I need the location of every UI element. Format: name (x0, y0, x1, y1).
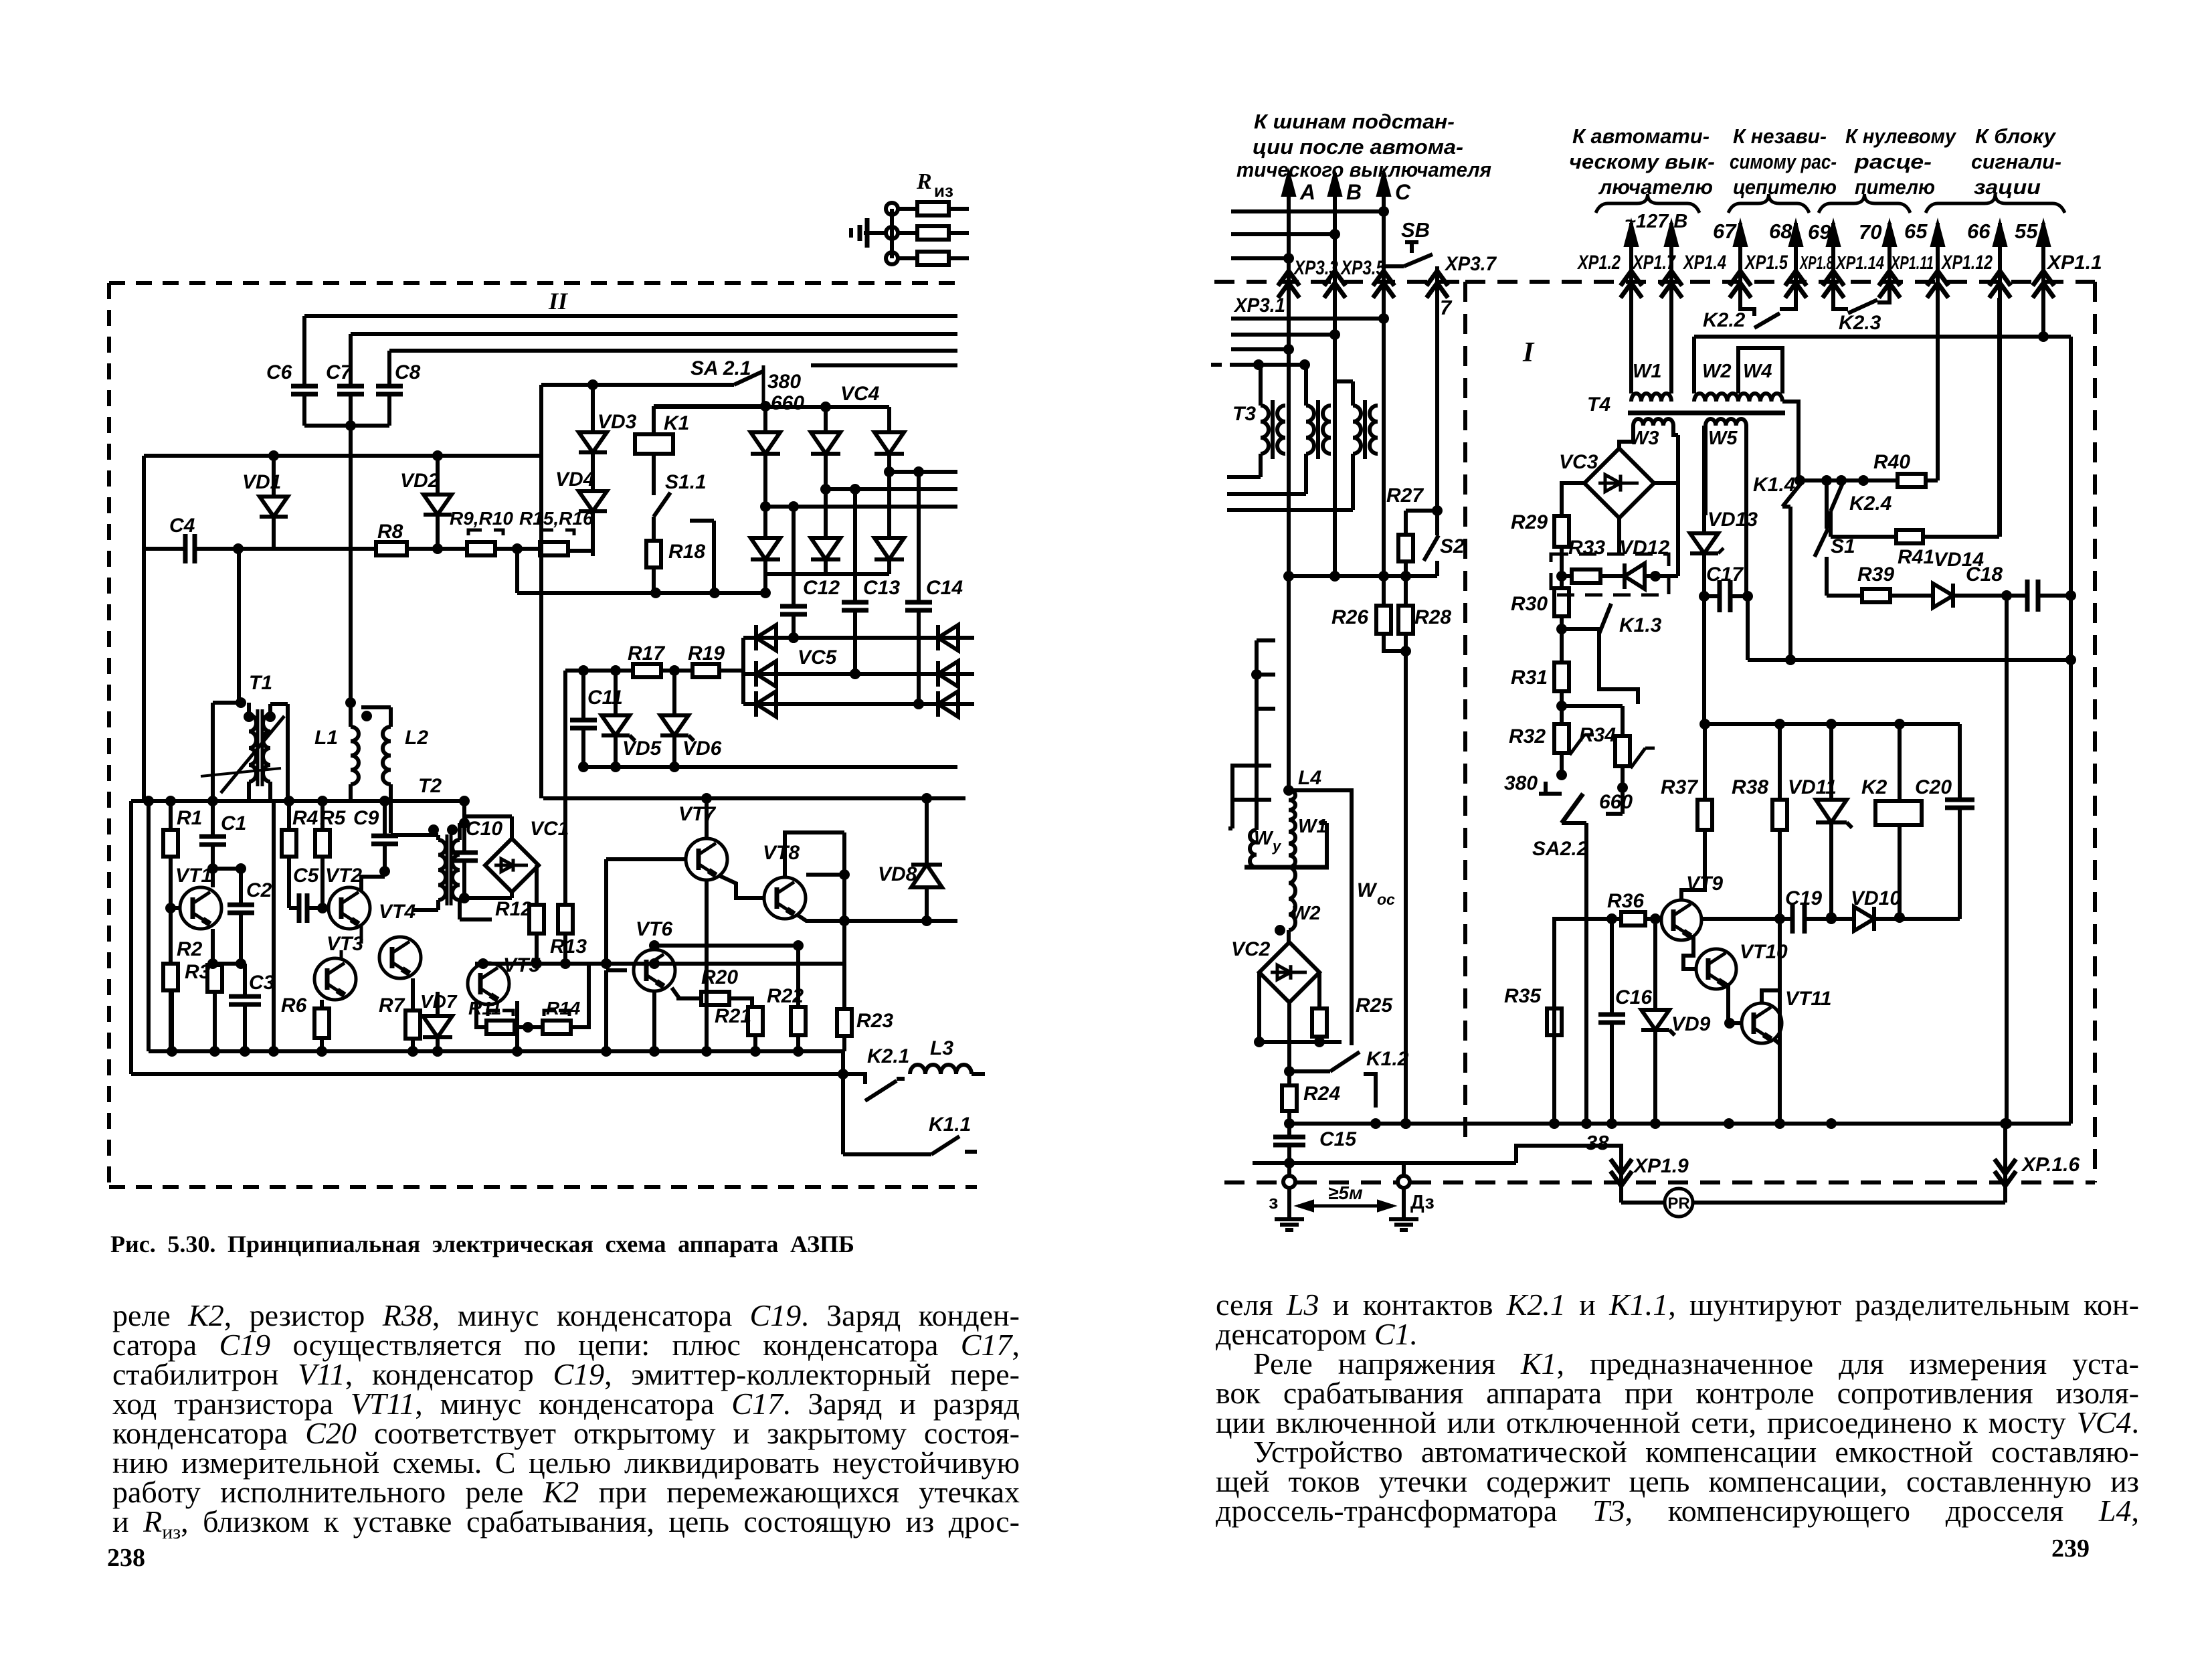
connector XP3.7 (1382, 260, 1386, 271)
svg-text:R32: R32 (1509, 725, 1546, 747)
svg-text:R14: R14 (546, 998, 581, 1019)
transistor VT4 (379, 937, 421, 978)
svg-text:R33: R33 (1568, 537, 1605, 559)
svg-text:ции после автома-: ции после автома- (1253, 135, 1463, 159)
diode VD10 (1831, 917, 1854, 921)
svg-text:сигнали-: сигнали- (1971, 150, 2061, 173)
resistors R9,R10 (467, 542, 495, 555)
wire bus 3 (389, 349, 957, 353)
capacitor C4 (144, 547, 185, 551)
svg-text:XP1.4: XP1.4 (1682, 252, 1726, 274)
capacitor C5 (289, 906, 299, 910)
capacitor C19 (1790, 904, 1795, 934)
contact K1.3 (1599, 604, 1611, 634)
svg-text:K1.1: K1.1 (929, 1114, 971, 1136)
svg-text:K1.3: K1.3 (1619, 614, 1662, 636)
svg-text:65: 65 (1904, 219, 1928, 243)
zener VD13 (1702, 426, 1706, 533)
svg-text:XP1.8: XP1.8 (1799, 252, 1834, 273)
resistors R15,R16 (517, 547, 540, 551)
svg-text:70: 70 (1859, 220, 1881, 244)
svg-text:R8: R8 (377, 521, 403, 543)
svg-text:38: 38 (1586, 1131, 1609, 1154)
transistor VT9 (1661, 900, 1701, 940)
wire VD8 bottom (844, 919, 957, 923)
inductor L2 (361, 705, 391, 709)
svg-text:C5: C5 (293, 865, 320, 887)
wire rail y1413 (654, 944, 800, 948)
wire phase verticals down (1287, 298, 1291, 576)
svg-text:S1: S1 (1831, 535, 1855, 557)
wire rail y1082 (1705, 722, 1960, 726)
svg-text:VT5: VT5 (503, 954, 541, 976)
resistor R7 (411, 978, 415, 1010)
svg-text:C8: C8 (395, 361, 421, 383)
svg-text:W1: W1 (1633, 361, 1662, 382)
zener VD6 (672, 671, 676, 715)
svg-text:VT11: VT11 (1785, 988, 1831, 1010)
wire 55 shaft (2041, 298, 2045, 337)
svg-text:VT3: VT3 (327, 933, 363, 955)
capacitor C16 (1606, 913, 1617, 924)
svg-text:R39: R39 (1857, 563, 1894, 586)
relay coil K1 (652, 406, 656, 434)
transistor VT8 (764, 877, 806, 919)
svg-text:ческому вык-: ческому вык- (1569, 150, 1715, 173)
svg-text:VT9: VT9 (1686, 873, 1723, 895)
distance arrow >=5m (1298, 1205, 1393, 1208)
brace independent release (1728, 194, 1809, 213)
resistor R28 (1404, 576, 1408, 606)
resistor R13 (558, 905, 573, 934)
svg-text:C20: C20 (1915, 776, 1952, 798)
svg-text:K2.4: K2.4 (1849, 493, 1892, 515)
switch SA2.1 (734, 371, 763, 385)
wire VC3 right to W3 (1654, 481, 1678, 485)
capacitor C8 (387, 351, 391, 386)
resistor R32 (1560, 706, 1564, 724)
connector XP3.3 (1287, 258, 1291, 271)
svg-text:C1: C1 (221, 812, 246, 834)
rectifier VC1 (485, 839, 539, 892)
resistor R40 (1898, 474, 1926, 487)
wire VC2 bottom node (1259, 1040, 1342, 1044)
contact K2.2 (1740, 298, 1754, 316)
wire R35 riser (1554, 919, 1612, 1035)
svg-text:S1.1: S1.1 (665, 471, 707, 493)
svg-text:А: А (1299, 180, 1315, 204)
capacitor C14 (917, 472, 921, 602)
svg-text:C19: C19 (1785, 887, 1822, 909)
transistor VT1 (180, 887, 221, 929)
resistor R24 (1287, 1071, 1291, 1085)
wire x1262 vertical (842, 832, 846, 1009)
svg-text:VC5: VC5 (798, 646, 838, 669)
wire S1.1 aux contact (690, 519, 714, 523)
svg-text:K2.3: K2.3 (1839, 312, 1881, 334)
capacitor C6 (302, 316, 306, 386)
capacitor C11 (565, 669, 583, 673)
inductor L3 (910, 1065, 972, 1074)
svg-text:XP.1.6: XP.1.6 (2021, 1154, 2080, 1176)
svg-text:SA2.2: SA2.2 (1532, 838, 1588, 860)
svg-text:К автомати-: К автомати- (1572, 124, 1710, 148)
svg-text:I: I (1522, 337, 1535, 368)
svg-text:C7: C7 (326, 361, 353, 383)
wire ground rail (1253, 1161, 1516, 1165)
resistor R12 (535, 865, 539, 905)
svg-text:из: из (934, 181, 953, 201)
phase arrows A B C (1287, 173, 1291, 260)
capacitor C13 (853, 489, 857, 602)
inductor L1 (349, 703, 353, 727)
wire VT9 emitter to VT10 (1683, 935, 1697, 969)
svg-text:R24: R24 (1303, 1083, 1340, 1105)
XP1 connector arrows (1629, 223, 1633, 278)
diode VD12 (1600, 574, 1625, 578)
page number 239 (2051, 1534, 2090, 1563)
svg-text:VD7: VD7 (420, 991, 458, 1012)
wire C6-C8 junction (304, 424, 389, 428)
box I left dashed border (1463, 282, 1467, 1146)
svg-text:VT10: VT10 (1740, 941, 1788, 963)
svg-text:R27: R27 (1386, 484, 1424, 507)
svg-text:R35: R35 (1504, 985, 1542, 1007)
svg-text:C15: C15 (1319, 1128, 1357, 1150)
svg-text:VD10: VD10 (1851, 887, 1901, 909)
connector XP3.5 (1333, 260, 1337, 271)
svg-text:XP3.1: XP3.1 (1233, 294, 1285, 317)
capacitor C2 (213, 867, 241, 871)
svg-text:VT2: VT2 (325, 865, 362, 887)
svg-text:66: 66 (1967, 219, 1991, 243)
capacitor C3 (243, 964, 247, 996)
left page dashed enclosure border II (109, 281, 963, 285)
wire K-row y718 (1800, 478, 1898, 482)
resistor block R_iz (insulation resistances) (890, 209, 894, 258)
resistor R36 (1612, 917, 1621, 921)
wire y986 long (1748, 658, 2071, 662)
brace automatic breaker (1596, 194, 1699, 213)
resistor R33 (1562, 574, 1572, 578)
connector XP1.6 (2003, 1186, 2007, 1203)
svg-text:K1: K1 (664, 412, 689, 434)
wire VT11 collector (1762, 990, 1780, 1004)
svg-text:R30: R30 (1511, 593, 1548, 615)
svg-text:симому рас-: симому рас- (1730, 150, 1837, 173)
svg-text:K2: K2 (1861, 776, 1887, 798)
resistor R22 (796, 946, 800, 1007)
right page body text (1216, 1290, 2139, 1526)
svg-text:XP1.5: XP1.5 (1744, 252, 1788, 274)
resistor R4 (287, 801, 291, 830)
diode VD7 (436, 992, 440, 1016)
wire bus 1 (top) (304, 314, 957, 318)
feed wires top (1231, 209, 1384, 213)
zener VD11 (1829, 724, 1833, 800)
wire left vertical (142, 456, 146, 801)
wire VT10 emitter to VT11 (1728, 983, 1742, 1023)
svg-text:C10: C10 (466, 818, 502, 840)
wire emitter frame left (147, 801, 151, 1051)
svg-text:380: 380 (767, 371, 801, 393)
brace null release (1819, 194, 1910, 213)
capacitor C9 (383, 801, 387, 836)
svg-text:55: 55 (2015, 219, 2038, 243)
wire SA2.1 feed (539, 385, 543, 798)
svg-text:R23: R23 (856, 1010, 893, 1032)
wire inner frame bottom / K2.1 rail (131, 1072, 843, 1076)
svg-text:R31: R31 (1511, 667, 1548, 689)
transistor VT6 (634, 950, 675, 991)
zener VD9 (1650, 913, 1661, 924)
relay coil K2 (1875, 801, 1922, 825)
diode VD8 (925, 798, 929, 865)
svg-text:R18: R18 (668, 541, 705, 563)
svg-text:VC2: VC2 (1231, 938, 1271, 960)
transistor VT2 (329, 887, 370, 929)
wire VT11 emitter (1773, 1039, 1780, 1124)
resistor R3 (213, 964, 217, 965)
svg-text:7: 7 (1440, 296, 1453, 319)
svg-text:C17: C17 (1706, 563, 1744, 586)
wire x2999 down (2005, 596, 2009, 1124)
svg-text:R28: R28 (1414, 606, 1451, 628)
contact K2.3 (1833, 298, 1848, 309)
resistor R6 (320, 1000, 324, 1008)
svg-text:цепителю: цепителю (1733, 175, 1837, 199)
wire 66 shaft (1998, 298, 2002, 537)
box I right dashed border (2093, 282, 2097, 1182)
svg-text:R9,R10: R9,R10 (450, 508, 513, 529)
wire VD10 to C20 (1900, 917, 1960, 921)
svg-text:VD3: VD3 (597, 411, 637, 433)
resistor R8 (233, 543, 244, 554)
resistor R18 (646, 541, 661, 567)
svg-text:тического выключателя: тического выключателя (1236, 158, 1491, 181)
wire bottom bus y=886 (517, 591, 765, 595)
svg-text:VD12: VD12 (1619, 537, 1669, 559)
ground electrode З (1287, 1163, 1291, 1176)
resistor R27 (1406, 509, 1437, 513)
svg-text:SA 2.1: SA 2.1 (690, 357, 751, 379)
svg-text:Т3: Т3 (1232, 403, 1256, 425)
svg-text:R40: R40 (1873, 451, 1910, 473)
capacitor C1 (211, 801, 215, 836)
contact K1.4 (1794, 475, 1805, 486)
resistor R41 (1831, 535, 1896, 539)
wire VC4 output row 1 (765, 505, 957, 509)
svg-text:R15,R16: R15,R16 (519, 508, 593, 529)
svg-text:XP1.1: XP1.1 (2046, 252, 2102, 274)
contact K1.1 (841, 1074, 845, 1154)
winding bracket lower (1232, 766, 1271, 800)
svg-text:R22: R22 (767, 985, 804, 1007)
switch S1.1 (652, 454, 656, 495)
svg-text:R7: R7 (379, 994, 405, 1017)
contact K1.2 (1289, 1069, 1330, 1073)
transistor VT5 (468, 963, 509, 1004)
diode VD14 (1890, 594, 1933, 598)
capacitor C15 (1287, 1124, 1291, 1137)
switch S2 (1424, 535, 1439, 561)
left page body text (112, 1301, 1020, 1536)
rectifier VC3 (1584, 448, 1654, 518)
svg-text:L2: L2 (405, 727, 428, 749)
svg-text:L3: L3 (930, 1037, 953, 1059)
svg-text:R: R (916, 169, 932, 194)
wire R15 junction down (515, 549, 519, 593)
contact S1 (1825, 480, 1829, 529)
svg-text:R21: R21 (715, 1005, 751, 1027)
svg-text:C4: C4 (169, 515, 195, 537)
svg-text:≥5м: ≥5м (1328, 1182, 1363, 1203)
svg-text:XP1.14: XP1.14 (1835, 252, 1884, 273)
svg-text:L4: L4 (1298, 767, 1321, 789)
wire rail 38 (1289, 1122, 2071, 1126)
svg-text:VD5: VD5 (622, 737, 662, 760)
svg-text:XP3.7: XP3.7 (1444, 253, 1497, 275)
svg-text:T2: T2 (418, 775, 442, 797)
svg-text:T1: T1 (249, 672, 272, 694)
svg-text:C12: C12 (803, 577, 840, 599)
diode VD3 (591, 385, 595, 432)
svg-text:C14: C14 (926, 577, 963, 599)
resistor R37 (1703, 724, 1707, 800)
svg-text:C18: C18 (1966, 563, 2003, 586)
svg-text:R6: R6 (281, 994, 307, 1017)
resistor R14 (543, 1021, 571, 1034)
wire bus 4 (SA2.1 output) (811, 363, 957, 367)
wire T3 coil bottoms (1227, 475, 1261, 479)
wire VC3 bottom (1617, 518, 1621, 554)
svg-text:C13: C13 (863, 577, 900, 599)
svg-text:R19: R19 (688, 642, 725, 665)
resistor R26 (1382, 576, 1386, 606)
wire W5R to y986 (1746, 596, 1750, 660)
zener VD5 (614, 671, 618, 715)
wire XP3.7 shaft down (1435, 294, 1439, 511)
svg-text:VD8: VD8 (878, 863, 917, 885)
resistor R11 (476, 1001, 486, 1027)
svg-text:380: 380 (1504, 772, 1538, 794)
svg-text:W4: W4 (1743, 361, 1772, 382)
svg-text:VT6: VT6 (636, 918, 672, 940)
resistor R5 (320, 801, 325, 830)
resistor R17 (583, 669, 633, 673)
svg-text:XP1.2: XP1.2 (1576, 252, 1621, 274)
svg-text:S2: S2 (1440, 535, 1465, 557)
wire top bus y=681 (144, 454, 541, 458)
svg-text:C9: C9 (353, 807, 379, 829)
winding bracket Wy upper (1255, 640, 1259, 709)
wire rail A (131, 799, 464, 803)
svg-text:VD4: VD4 (555, 468, 595, 491)
capacitor C20 (1958, 724, 1962, 800)
wire VC2 left (1257, 972, 1261, 1042)
svg-text:VD11: VD11 (1788, 776, 1837, 798)
dashed connector line / box I top (1214, 280, 1465, 284)
svg-text:R5: R5 (320, 807, 347, 829)
resistor R20 (672, 988, 701, 998)
svg-text:К нулевому: К нулевому (1845, 124, 1957, 148)
svg-text:R29: R29 (1511, 511, 1548, 533)
svg-text:W: W (1254, 828, 1274, 849)
svg-text:з: з (1269, 1192, 1278, 1213)
svg-text:L1: L1 (314, 727, 338, 749)
transistor VT11 (1742, 1003, 1782, 1043)
svg-text:W2: W2 (1702, 361, 1732, 382)
wire VD4 to R15,R16 (568, 549, 593, 553)
brace signal block (1926, 194, 2065, 213)
rectifier VC2 (1259, 942, 1319, 1002)
resistor R35 (1547, 1008, 1562, 1035)
svg-text:VC3: VC3 (1559, 451, 1598, 473)
resistor R39 (1827, 594, 1862, 598)
wire VT9-C19 link (1700, 917, 1780, 921)
svg-text:VD6: VD6 (682, 737, 722, 760)
device PR (1665, 1188, 1693, 1217)
svg-text:XP1.11: XP1.11 (1890, 252, 1934, 273)
svg-text:K1.4: K1.4 (1753, 474, 1796, 496)
svg-text:VT8: VT8 (763, 842, 800, 864)
wire VT8 emitter (796, 914, 844, 921)
svg-text:R34: R34 (1579, 724, 1616, 746)
svg-text:В: В (1346, 180, 1362, 204)
resistor R19 (661, 669, 693, 673)
capacitor C18 (2025, 580, 2030, 612)
resistor R29 (1562, 483, 1584, 516)
svg-text:R3: R3 (185, 961, 211, 983)
svg-text:у: у (1272, 838, 1282, 855)
svg-text:W1: W1 (1298, 816, 1327, 837)
wire junction rail y861 (1289, 574, 1437, 578)
resistor R31 (1560, 629, 1564, 663)
resistor R38 (1778, 724, 1782, 800)
bottom dashed border (1224, 1180, 1282, 1184)
page number 238 (107, 1543, 145, 1573)
resistor R34 (1562, 704, 1623, 708)
svg-text:K1.2: K1.2 (1366, 1048, 1409, 1070)
wire inner frame left (129, 801, 133, 1074)
svg-text:XP1.9: XP1.9 (1633, 1155, 1689, 1177)
svg-text:R12: R12 (495, 898, 532, 920)
svg-text:VC4: VC4 (840, 383, 880, 405)
diode VD2 (436, 456, 440, 495)
svg-text:пителю: пителю (1855, 175, 1935, 199)
capacitor C17 (1718, 580, 1722, 612)
wire 65 shaft (1936, 298, 1940, 480)
svg-text:R11: R11 (468, 998, 501, 1019)
wire VC4 output row 3 (889, 470, 957, 474)
svg-text:R36: R36 (1607, 890, 1644, 912)
wire right vertical x3095 (2069, 337, 2073, 1124)
svg-text:VD9: VD9 (1671, 1013, 1711, 1035)
contact K2.4 (1831, 483, 1843, 511)
svg-text:R13: R13 (550, 936, 587, 958)
svg-text:К блоку: К блоку (1975, 124, 2057, 148)
svg-text:R17: R17 (628, 642, 665, 665)
transformer core T3-L4 (1245, 865, 1329, 870)
transistor VT7 (686, 839, 727, 880)
wire VC4 output row 2 (826, 487, 957, 491)
wire VD5/VD6 bottom (583, 765, 957, 769)
snubber dashed box R33 VD12 (1551, 554, 1669, 595)
transistor VT3 (314, 958, 356, 1000)
svg-text:VT4: VT4 (379, 901, 416, 923)
svg-text:VD2: VD2 (400, 470, 440, 492)
svg-text:R1: R1 (177, 807, 202, 829)
